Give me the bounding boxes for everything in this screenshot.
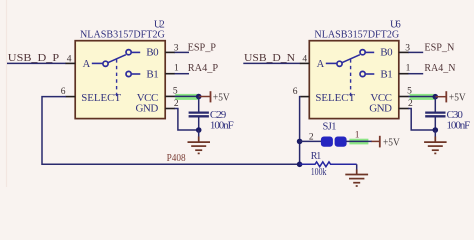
IC U2 body	[75, 41, 165, 119]
svg-text:USB_D_P: USB_D_P	[8, 53, 59, 64]
U2 pin number 4	[67, 54, 72, 64]
svg-text:A: A	[317, 59, 325, 70]
capacitor C29	[189, 97, 209, 131]
junction SELECT net at SJ1	[297, 139, 303, 145]
U2 pin 5 highlight	[175, 94, 199, 100]
U6 B1 contact circle	[360, 71, 365, 76]
U2 B1 label	[146, 68, 158, 80]
svg-text:SJ1: SJ1	[323, 122, 337, 133]
wire U2 SELECT net P408	[42, 97, 300, 165]
U2 SELECT label	[81, 92, 121, 104]
capacitor C30	[425, 97, 445, 130]
net RA4_N label	[424, 63, 455, 74]
svg-text:4: 4	[302, 54, 307, 64]
svg-text:RA4_P: RA4_P	[188, 63, 218, 74]
SJ1 pin number 2	[309, 132, 314, 142]
C29 value 100nF	[210, 120, 234, 132]
U2 B0 label	[146, 47, 159, 59]
wire U6 VCC to +5V node	[408, 96, 435, 98]
U6 switch pole lead wire	[326, 62, 337, 64]
svg-text:100nF: 100nF	[447, 120, 471, 132]
wire U6 GND to cap bottom	[408, 109, 435, 131]
net ESP_P label	[188, 43, 217, 54]
svg-text:6: 6	[293, 87, 298, 97]
U6 B1 contact lead	[365, 73, 374, 75]
U2 GND label	[136, 103, 159, 115]
svg-text:RA4_N: RA4_N	[424, 63, 455, 74]
svg-text:ESP_N: ESP_N	[424, 43, 454, 54]
resistor R1	[300, 162, 357, 167]
U6 pin number 6	[293, 87, 298, 97]
svg-text:2: 2	[174, 99, 179, 109]
svg-text:B0: B0	[380, 47, 393, 59]
svg-text:R1: R1	[311, 151, 322, 162]
U2 pin number 2	[174, 99, 179, 109]
U6 switch pole contact circle	[337, 61, 342, 66]
U6 B1 label	[380, 68, 392, 80]
U6 pin 2 stub	[399, 108, 409, 110]
ground (C30)	[424, 130, 447, 153]
U2 pin number 6	[61, 87, 66, 97]
U6 select dashed control line	[350, 59, 352, 98]
sheet background	[0, 0, 474, 187]
U2 pin number 5	[173, 86, 178, 96]
svg-text:3: 3	[405, 43, 410, 53]
U2 B0 contact lead	[131, 51, 140, 53]
svg-text:P408: P408	[167, 153, 186, 164]
U2 B1 contact circle	[126, 71, 131, 76]
C29 designator	[210, 109, 227, 121]
svg-text:USB_D_N: USB_D_N	[244, 53, 295, 64]
net USB_D_N label	[244, 53, 295, 64]
U6 pin number 5	[407, 86, 412, 96]
U6 switch blade	[342, 55, 360, 63]
junction VCC U2	[196, 94, 202, 100]
U2 pin 4 stub	[66, 62, 76, 64]
U2 pin 3 stub	[165, 51, 175, 53]
U6 pin number 1	[406, 64, 411, 74]
svg-text:2: 2	[408, 99, 413, 109]
C30 designator	[447, 109, 464, 121]
wire U6 SELECT down to SJ1/R1	[299, 97, 302, 165]
U6 part value NLASB3157DFT2G	[314, 28, 399, 40]
svg-text:1: 1	[174, 64, 179, 74]
SJ1 designator	[323, 122, 337, 133]
svg-text:SELECT: SELECT	[315, 92, 355, 104]
wire to SJ1 pin 2	[300, 140, 322, 142]
junction cap C30 bottom	[433, 127, 439, 133]
svg-text:GND: GND	[136, 103, 159, 115]
U6 pin 5 stub	[399, 96, 409, 98]
svg-text:ESP_P: ESP_P	[188, 43, 217, 54]
U6 GND label	[369, 103, 392, 115]
svg-text:5: 5	[173, 86, 178, 96]
svg-text:NLASB3157DFT2G: NLASB3157DFT2G	[314, 28, 399, 40]
IC U6 designator	[390, 19, 401, 30]
U6 B0 contact lead	[365, 51, 374, 53]
U6 pin 1 stub	[399, 73, 409, 75]
U6 pin 6 stub	[300, 96, 309, 98]
svg-text:2: 2	[309, 132, 314, 142]
wire U6 pin 1 to RA4_N	[408, 73, 423, 75]
U6 pin 4 stub	[300, 62, 310, 64]
IC U2 designator	[154, 19, 165, 30]
svg-text:B1: B1	[380, 68, 392, 80]
svg-text:100nF: 100nF	[210, 120, 234, 132]
power +5V symbol (U6)	[435, 91, 466, 103]
wire U6 pin 3 to ESP_N	[408, 51, 423, 53]
U2 switch pole lead wire	[92, 62, 103, 64]
net USB_D_P label	[8, 53, 59, 64]
junction cap C29 bottom	[196, 127, 202, 133]
net ESP_N label	[424, 43, 454, 54]
U2 pin 5 stub	[165, 95, 175, 97]
svg-text:5: 5	[407, 86, 412, 96]
U6 pin number 2	[408, 99, 413, 109]
U6 SELECT label	[315, 92, 355, 104]
junction P408 at R1	[297, 162, 303, 168]
U2 pin 1 stub	[165, 73, 175, 75]
wire U2 pin 1 to RA4_P	[175, 73, 190, 75]
net RA4_P label	[188, 63, 218, 74]
svg-text:100k: 100k	[311, 167, 327, 178]
wire U2 GND to cap bottom	[175, 109, 199, 131]
U6 B0 contact circle	[360, 50, 365, 55]
U2 B0 contact circle	[126, 50, 131, 55]
U2 pin number 1	[174, 64, 179, 74]
power +5V symbol (SJ1)	[372, 136, 401, 149]
U2 pin 2 stub	[165, 108, 175, 110]
solder jumper SJ1 pad 2	[335, 137, 347, 147]
power +5V symbol (U2)	[199, 91, 231, 103]
svg-text:A: A	[83, 59, 91, 70]
svg-text:B1: B1	[146, 68, 158, 80]
U2 switch blade	[108, 55, 126, 63]
U2 B1 contact lead	[131, 73, 140, 75]
svg-text:NLASB3157DFT2G: NLASB3157DFT2G	[80, 28, 165, 40]
svg-text:6: 6	[61, 87, 66, 97]
C30 value 100nF	[447, 120, 471, 132]
ground (R1)	[345, 164, 368, 186]
net label P408	[167, 153, 186, 164]
wire U2 VCC to +5V node	[175, 95, 199, 97]
SJ1 pin number 1	[355, 130, 360, 140]
U6 VCC label	[370, 92, 392, 104]
U2 select dashed control line	[116, 59, 118, 98]
svg-text:GND: GND	[369, 103, 392, 115]
wire U2 pin 3 to ESP_P	[175, 51, 190, 53]
U6 pin number 4	[302, 54, 307, 64]
R1 designator	[311, 151, 322, 162]
U2 switch pole contact circle	[103, 61, 108, 66]
U2 pin number 3	[174, 43, 179, 53]
IC U6 body	[309, 41, 399, 119]
U6 pin 3 stub	[399, 51, 409, 53]
svg-text:+5V: +5V	[383, 138, 401, 149]
U2 VCC label	[137, 92, 159, 104]
svg-text:SELECT: SELECT	[81, 92, 121, 104]
ground (C29)	[188, 130, 211, 153]
U2 part value NLASB3157DFT2G	[80, 28, 165, 40]
solder jumper SJ1 pad 1	[321, 137, 333, 147]
junction VCC U6	[433, 94, 439, 100]
U6 pin A label	[317, 59, 325, 70]
svg-text:+5V: +5V	[213, 92, 231, 103]
svg-text:4: 4	[67, 54, 72, 64]
R1 value 100k	[311, 167, 327, 178]
svg-text:B0: B0	[146, 47, 159, 59]
svg-text:3: 3	[174, 43, 179, 53]
wire USB_D_N to U6 pin 4	[243, 62, 300, 64]
wire SJ1 pin 1 to +5V	[346, 140, 372, 142]
U6 pin 5 highlight	[410, 94, 436, 100]
svg-text:1: 1	[406, 64, 411, 74]
SJ1 pin 1 highlight	[349, 139, 368, 145]
svg-text:+5V: +5V	[449, 92, 467, 103]
wire USB_D_P to U2 pin 4	[7, 62, 66, 64]
svg-text:1: 1	[355, 130, 360, 140]
U2 pin A label	[83, 59, 91, 70]
sheet left border line	[6, 0, 8, 187]
U6 B0 label	[380, 47, 393, 59]
U2 pin 6 stub	[66, 96, 76, 98]
U6 pin number 3	[405, 43, 410, 53]
